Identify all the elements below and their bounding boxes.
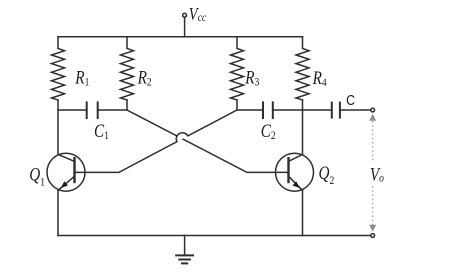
svg-text:C2: C2	[261, 120, 276, 142]
resistor R3	[231, 37, 244, 100]
resistor R4	[296, 37, 309, 100]
svg-text:Vcc: Vcc	[189, 3, 206, 24]
svg-text:C: C	[346, 92, 355, 108]
capacitor C1	[86, 102, 88, 118]
svg-text:Q1: Q1	[29, 164, 45, 189]
svg-text:Q2: Q2	[319, 162, 335, 187]
arrow up at output	[369, 114, 376, 121]
capacitor C	[331, 103, 333, 118]
wire C to output terminal	[340, 109, 371, 111]
transistor Q1	[47, 153, 85, 191]
wire bottom rail	[58, 235, 371, 237]
arrow down at ground rail	[369, 225, 376, 232]
wire C1 to R2	[98, 109, 127, 111]
resistor R1	[52, 37, 65, 100]
svg-text:R2: R2	[137, 67, 152, 89]
wire cross-couple R3 to Q1 base with hop	[75, 110, 238, 172]
wire C2 to R4	[273, 109, 303, 111]
svg-text:R4: R4	[312, 67, 327, 89]
resistor R2	[121, 37, 134, 100]
wire Q1 emitter to ground rail	[57, 190, 59, 235]
node Vcc terminal	[183, 13, 187, 17]
wire top rail	[58, 36, 303, 38]
ground	[184, 236, 186, 255]
svg-text:C1: C1	[94, 120, 109, 142]
wire R3 to C2	[237, 109, 263, 111]
transistor Q1 emitter arrow	[61, 181, 68, 188]
wire R2 bottom	[126, 100, 128, 110]
wire R3 bottom	[236, 100, 238, 110]
capacitor C2	[262, 102, 264, 118]
svg-text:R1: R1	[74, 67, 89, 89]
wire Vcc stub	[184, 17, 186, 37]
measurement dotted line Vo	[372, 121, 374, 226]
svg-text:Vo: Vo	[370, 164, 385, 185]
wire R1 bottom to Q1 collector	[57, 100, 59, 155]
node output terminal	[371, 108, 375, 112]
wire hop mask	[176, 133, 188, 142]
wire cross-couple R2 to Q2 base	[127, 110, 289, 172]
wire R4 bottom to Q2 collector	[302, 100, 304, 155]
wire R4 node to C	[303, 109, 332, 111]
node bottom output terminal	[371, 234, 375, 238]
svg-text:R3: R3	[244, 67, 259, 89]
wire node1 to C1	[58, 109, 87, 111]
transistor Q2	[276, 153, 314, 191]
transistor Q2 emitter arrow	[293, 181, 300, 188]
wire Q2 emitter to ground rail	[302, 190, 304, 235]
